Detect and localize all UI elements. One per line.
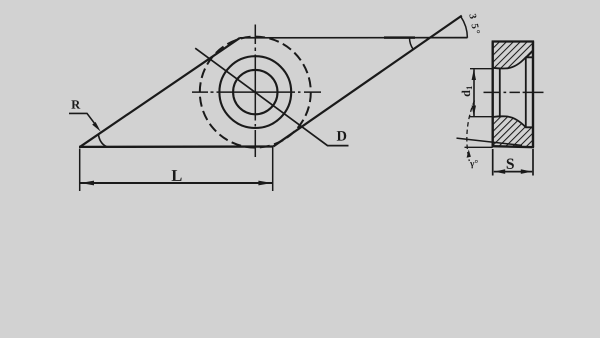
wire: S extension line right — [532, 149, 534, 176]
label: 35 degrees — [469, 14, 476, 19]
wire: bottom edge of insert A-B — [79, 145, 274, 148]
wire: section left edge — [492, 42, 494, 147]
wire: R leader — [69, 113, 98, 127]
wire: countersink curve bottom — [493, 116, 534, 127]
wire: d1 dimension line — [473, 69, 475, 116]
wire: d1 extension line bottom — [470, 116, 493, 118]
wire: hatch line in top-right corner box — [526, 50, 533, 57]
wire: thick overlay segment on top edge — [384, 36, 415, 39]
wire: right edge of insert B to tip (incl. extension past vertex C) — [274, 16, 462, 147]
wire: section right edge — [532, 42, 534, 147]
circle: hole counterbore — [219, 56, 291, 128]
arrow: L left arrowhead — [81, 181, 95, 186]
wire: L extension line right — [272, 148, 274, 192]
section: top hatched area — [493, 42, 534, 69]
circle: hole inner — [233, 70, 277, 114]
arrow: S left arrowhead — [494, 169, 505, 174]
wire: section centerline — [484, 91, 544, 93]
label d1 — [462, 86, 472, 96]
arrow: clearance angle arrowhead — [467, 150, 471, 158]
node: corner radius arc at A — [98, 134, 106, 147]
node: 35-degree angle outer arc at vertex C — [461, 16, 468, 37]
wire: left edge of insert A-D — [80, 38, 240, 147]
wire: countersink rim vertical right — [525, 57, 527, 127]
label clearance angle — [470, 160, 478, 168]
label D — [337, 131, 347, 141]
wire: horizontal reference line at section bottom — [465, 146, 493, 148]
wire: L dimension line — [80, 182, 272, 184]
arrow: S right arrowhead — [521, 169, 532, 174]
wire: d1 extension line top — [470, 68, 493, 70]
circle: inscribed circle (dashed) — [200, 37, 311, 148]
wire: S dimension line — [494, 171, 532, 173]
node: clearance angle dashed arc — [467, 101, 475, 162]
label S — [507, 159, 514, 169]
wire: clearance angle slanted line — [457, 138, 523, 145]
wire: D leader diagonal — [195, 48, 348, 145]
node: 35-degree angle inner arc at vertex C — [410, 38, 414, 49]
label L — [172, 170, 182, 181]
wire: L extension line left — [79, 149, 81, 192]
wire: section bottom edge (slanted) — [492, 146, 534, 147]
wire: S extension line left — [492, 149, 494, 176]
arrow: d1 top arrowhead — [472, 69, 476, 80]
arrow: L right arrowhead — [258, 181, 272, 186]
wire: countersink curve top — [493, 57, 534, 68]
wire: horizontal centerline — [192, 91, 321, 93]
section: bottom hatched area — [493, 116, 534, 147]
arrow: d1 bottom arrowhead — [472, 106, 476, 117]
wire: bore edge vertical left — [499, 68, 501, 117]
wire: vertical centerline — [254, 25, 256, 158]
wire: section top edge — [492, 40, 534, 42]
arrow: R leader arrowhead — [92, 122, 101, 132]
label R — [71, 100, 80, 108]
wire: top edge of insert D-C with extension — [240, 37, 468, 39]
